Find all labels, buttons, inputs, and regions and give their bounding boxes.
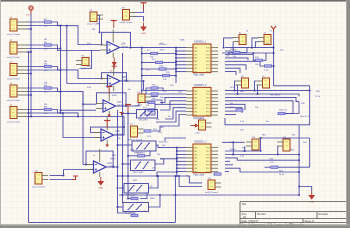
svg-text:ext(+) Tunnel: ext(+) Tunnel bbox=[7, 120, 20, 123]
svg-text:Revision: Revision bbox=[319, 213, 329, 216]
wire row3 pin1 to op-amp B in bbox=[27, 67, 101, 79]
op-amp U1D bbox=[94, 117, 123, 145]
wire row4 pin1 to op-amp C in bbox=[27, 88, 96, 104]
svg-text:ext(+) Tunnel: ext(+) Tunnel bbox=[7, 33, 20, 36]
wire row 1 from connector J1 bbox=[27, 25, 61, 27]
svg-text:NJM2901_1: NJM2901_1 bbox=[194, 42, 207, 44]
wire op-amp B feedback loop bbox=[102, 73, 127, 81]
power mark near P6 circuit bbox=[120, 113, 124, 116]
svg-text:P1O: P1O bbox=[206, 94, 210, 96]
svg-text:P1O: P1O bbox=[206, 51, 210, 53]
svg-text:P0O: P0O bbox=[206, 91, 210, 93]
wire vertical x177.4 to bottom bus bbox=[174, 176, 176, 222]
power VCC opamp C bbox=[106, 87, 112, 95]
wire VCC right stem down bbox=[273, 31, 275, 86]
power VCC opamp D bbox=[104, 121, 110, 129]
svg-text:NJM2901_3: NJM2901_3 bbox=[194, 142, 207, 144]
wire: vertical bus x28.5 upper bbox=[28, 52, 30, 113]
wire op-amp D feedback loop bbox=[114, 134, 125, 136]
wire conn J6 feeds bbox=[224, 38, 234, 48]
wire vertical x141.8 bbox=[141, 48, 143, 94]
resistor R25 bbox=[131, 195, 139, 199]
svg-text:VCC: VCC bbox=[26, 15, 31, 17]
svg-text:R16 Rout: R16 Rout bbox=[159, 141, 168, 144]
switch SW3 bbox=[131, 160, 156, 174]
svg-text:IN5: IN5 bbox=[194, 108, 197, 110]
wire near conn P4 bbox=[81, 50, 92, 69]
svg-text:NJM2901_2: NJM2901_2 bbox=[194, 85, 207, 87]
svg-text:4PDT SW3: 4PDT SW3 bbox=[126, 195, 138, 197]
svg-text:P3O: P3O bbox=[206, 58, 210, 60]
power VCC sw bbox=[125, 105, 131, 113]
wire op-amp A feedback loop bbox=[102, 32, 131, 47]
power VCC top bbox=[141, 3, 147, 11]
connector P7 bbox=[128, 124, 144, 142]
wire to right nest top bbox=[274, 85, 310, 87]
op-amp U1B bbox=[101, 63, 130, 91]
wire P6 pin wires bbox=[151, 96, 158, 98]
svg-text:W32 MELF: W32 MELF bbox=[270, 95, 281, 97]
op-amp U1C bbox=[96, 88, 125, 116]
wire conn J7 feeds bbox=[252, 38, 259, 48]
diode D1 bbox=[110, 58, 117, 73]
ground bbox=[97, 177, 104, 190]
resistor R32 bbox=[264, 65, 272, 72]
connector P4 bbox=[76, 55, 89, 70]
svg-text:IN4: IN4 bbox=[194, 105, 197, 107]
ground bbox=[308, 191, 315, 204]
svg-text:Number: Number bbox=[257, 213, 266, 216]
wire SW1 left feed bbox=[123, 112, 137, 114]
wire row2 pin1 to op-amp A in- bbox=[27, 45, 100, 51]
svg-text:U2A: U2A bbox=[108, 162, 113, 165]
switch SW4 bbox=[124, 184, 149, 197]
no-ERC marker bbox=[191, 125, 196, 127]
svg-text:SW-DIP2: SW-DIP2 bbox=[139, 120, 149, 122]
wire ladder x176 IC1 left bbox=[175, 48, 177, 83]
svg-text:IN0: IN0 bbox=[194, 91, 197, 93]
svg-text:ext(+) Tunnel: ext(+) Tunnel bbox=[32, 185, 45, 188]
connector J11 bbox=[32, 170, 48, 188]
resistor R10 bbox=[159, 68, 166, 70]
svg-text:4PDT SW1: 4PDT SW1 bbox=[134, 153, 146, 155]
power VCC opamp A bbox=[111, 21, 117, 29]
svg-text:U1A: U1A bbox=[121, 43, 126, 46]
wire right vertical to GND bbox=[298, 125, 300, 187]
power mark below op-amp D bbox=[105, 145, 109, 148]
svg-text:LM324: LM324 bbox=[122, 80, 130, 82]
wire ladder x176.8 IC3 left bbox=[176, 148, 178, 176]
switch SW1 bbox=[137, 110, 158, 122]
resistor R9 bbox=[156, 61, 163, 63]
svg-text:ext(+) Tunnel: ext(+) Tunnel bbox=[7, 99, 20, 102]
svg-text:IN6: IN6 bbox=[194, 168, 197, 170]
wire long vertical x122.5 bbox=[122, 53, 124, 203]
svg-text:IN0: IN0 bbox=[194, 147, 197, 149]
svg-text:Rout: Rout bbox=[160, 49, 165, 52]
wire IC2 right nest bbox=[225, 90, 310, 92]
wire: vertical bus x31 from VCC P1 bbox=[30, 10, 32, 116]
wire vertical x128 switch feed bbox=[127, 109, 129, 199]
svg-text:Vcc: Vcc bbox=[266, 43, 269, 45]
wire long horizontal y195 bbox=[119, 194, 299, 196]
wire op-amp E loop bbox=[86, 151, 113, 167]
resistor R31 bbox=[255, 57, 263, 66]
page border bbox=[0, 0, 350, 2]
svg-text:1k: 1k bbox=[93, 155, 95, 157]
connector J13 bbox=[246, 137, 259, 150]
svg-text:LED: LED bbox=[196, 132, 201, 134]
svg-text:Pght_Sddr: Pght_Sddr bbox=[194, 174, 205, 177]
svg-text:P5O: P5O bbox=[206, 165, 210, 167]
wire: vertical bus x83 bbox=[82, 91, 84, 164]
svg-text:P4O: P4O bbox=[206, 61, 210, 63]
resistor R30 bbox=[233, 49, 241, 58]
resistor R4 bbox=[44, 85, 52, 94]
wire conn J11 feeds bbox=[50, 175, 64, 177]
svg-text:P6O: P6O bbox=[206, 168, 210, 170]
wire op-amp B in2 feed bbox=[67, 83, 101, 85]
svg-text:IN1: IN1 bbox=[194, 151, 197, 153]
svg-text:RGb2: RGb2 bbox=[230, 149, 236, 151]
wire op-amp A out to IC1 pin1 bbox=[131, 47, 187, 49]
resistor R7 bbox=[151, 52, 158, 54]
connector P3 bbox=[120, 7, 136, 24]
resistor R28 bbox=[271, 166, 278, 168]
svg-text:IN2: IN2 bbox=[194, 54, 197, 56]
svg-text:Vw: Vw bbox=[168, 116, 171, 118]
svg-text:IN3: IN3 bbox=[194, 158, 197, 160]
wire row 2 from connector J2 bbox=[27, 48, 61, 50]
title block bbox=[240, 202, 347, 226]
wire top conn P2/P3 bbox=[97, 16, 100, 33]
op-amp U2A bbox=[87, 149, 116, 177]
wire long vertical x117.5 bbox=[118, 110, 132, 213]
svg-text:4PDT SW4: 4PDT SW4 bbox=[125, 213, 137, 215]
resistor R19 bbox=[144, 130, 151, 132]
svg-text:U1C: U1C bbox=[117, 102, 122, 104]
wire op-amp E input bbox=[83, 164, 86, 166]
connector J7 bbox=[258, 32, 271, 44]
resistor R18 bbox=[148, 109, 155, 111]
svg-text:IN4: IN4 bbox=[194, 61, 197, 63]
svg-text:IN5: IN5 bbox=[194, 165, 197, 167]
svg-text:4PDT SW2: 4PDT SW2 bbox=[133, 172, 145, 174]
svg-text:Pght_Sddr: Pght_Sddr bbox=[194, 117, 205, 120]
connector J5 bbox=[7, 104, 27, 123]
svg-text:IN7: IN7 bbox=[194, 115, 197, 117]
svg-text:IN4: IN4 bbox=[194, 161, 197, 163]
op-amp U1A bbox=[100, 30, 129, 58]
svg-text:GND: GND bbox=[141, 33, 146, 35]
wire stair IC2 left pins bbox=[158, 93, 186, 95]
svg-text:LM324: LM324 bbox=[117, 105, 125, 107]
wire op-amp D in+ feed bbox=[61, 113, 102, 138]
resistor R2 bbox=[44, 42, 52, 51]
wire conn J12 feeds bbox=[189, 176, 202, 183]
wire op-amp B out to IC2 bbox=[127, 81, 187, 91]
connector J3 bbox=[7, 61, 27, 80]
resistor R24 bbox=[137, 153, 145, 157]
resistor R5 bbox=[44, 106, 52, 115]
resistor R15 bbox=[151, 87, 158, 89]
svg-text:P1O: P1O bbox=[206, 151, 210, 153]
connector J1 bbox=[7, 17, 27, 36]
svg-text:P7O: P7O bbox=[206, 115, 210, 117]
power P1 VCC bbox=[29, 6, 33, 14]
switch SW2 bbox=[132, 141, 156, 155]
wire switch cluster interconnect bbox=[118, 144, 133, 146]
svg-text:U1D: U1D bbox=[115, 131, 120, 133]
wire row5 pin1 bbox=[27, 110, 78, 117]
wire op-amp E out onward bbox=[113, 166, 117, 168]
wire resistor links IC1 bbox=[142, 53, 151, 55]
svg-text:GND: GND bbox=[98, 188, 103, 190]
connector P2 bbox=[87, 10, 103, 26]
wire feeds into IC3 ladder bbox=[158, 147, 177, 148]
connector J6 bbox=[233, 32, 246, 44]
wire long bottom y221 bbox=[29, 221, 176, 223]
wire bus y53 bbox=[222, 52, 274, 54]
svg-text:IN3: IN3 bbox=[194, 101, 197, 103]
svg-text:ext(+) Tunnel: ext(+) Tunnel bbox=[7, 77, 20, 80]
svg-text:P5O: P5O bbox=[206, 65, 210, 67]
svg-text:R33 2.2k: R33 2.2k bbox=[279, 110, 288, 112]
svg-text:ext(+)T: ext(+)T bbox=[135, 104, 143, 107]
wire: vertical bus x66.8 bbox=[66, 26, 68, 84]
svg-text:Pght_Sddr: Pght_Sddr bbox=[194, 74, 205, 77]
svg-text:Rout: Rout bbox=[160, 96, 165, 99]
svg-text:Vo2b: Vo2b bbox=[112, 95, 118, 97]
power mark below op-amp C bbox=[107, 115, 111, 118]
svg-text:P4O: P4O bbox=[206, 161, 210, 163]
wire long feed y116.5 into op-amp D node bbox=[31, 117, 124, 136]
svg-text:NJM: NJM bbox=[180, 40, 185, 42]
IC U5 bbox=[186, 142, 218, 177]
svg-text:P5O: P5O bbox=[206, 108, 210, 110]
svg-text:IN6: IN6 bbox=[194, 68, 197, 70]
svg-text:P2O: P2O bbox=[206, 54, 210, 56]
wire op-amp C in2 feed bbox=[61, 109, 97, 111]
svg-text:P6O: P6O bbox=[206, 111, 210, 113]
svg-text:P4O: P4O bbox=[206, 105, 210, 107]
connector J8 bbox=[236, 76, 249, 88]
svg-text:IN7: IN7 bbox=[194, 71, 197, 73]
resistor R3 bbox=[44, 63, 52, 72]
resistor R17 bbox=[148, 101, 155, 103]
resistor R27 bbox=[236, 109, 243, 111]
svg-text:IN1: IN1 bbox=[194, 51, 197, 53]
IC U3 bbox=[186, 42, 218, 77]
svg-text:Rout: Rout bbox=[240, 90, 245, 93]
wire row1 pin1 to op-amp A in+ bbox=[27, 22, 100, 45]
wire IC3 right nest bbox=[222, 141, 245, 143]
power stub red J11 bbox=[72, 176, 78, 180]
svg-text:ext(+)T: ext(+)T bbox=[79, 67, 87, 70]
svg-text:IN0: IN0 bbox=[194, 47, 197, 49]
connector P8 bbox=[196, 118, 212, 135]
svg-text:IN6: IN6 bbox=[194, 111, 197, 113]
resistor R16 bbox=[151, 93, 158, 95]
wire conn J8a feeds bbox=[235, 81, 236, 91]
svg-text:IN2: IN2 bbox=[194, 98, 197, 100]
wire op-amp C feedback loop bbox=[97, 93, 127, 106]
svg-text:6/3/2017: 6/3/2017 bbox=[249, 220, 259, 223]
wire row 3 from connector J3 bbox=[27, 69, 61, 71]
svg-text:P7O: P7O bbox=[206, 171, 210, 173]
svg-text:Date:: Date: bbox=[242, 220, 248, 223]
connector P6 bbox=[135, 92, 151, 107]
svg-text:ext(+) Tunnel: ext(+) Tunnel bbox=[7, 56, 20, 59]
wire conn J8b feeds bbox=[255, 81, 257, 91]
svg-text:MELF: MELF bbox=[110, 159, 116, 161]
svg-text:ext(2) Tunnel: ext(2) Tunnel bbox=[205, 191, 218, 194]
connector J14 bbox=[277, 137, 290, 151]
svg-text:IN1: IN1 bbox=[194, 94, 197, 96]
wire row 4 from connector J4 bbox=[27, 91, 61, 93]
svg-text:IN5: IN5 bbox=[194, 65, 197, 67]
svg-text:LM324: LM324 bbox=[108, 166, 116, 168]
connector J4 bbox=[7, 83, 27, 102]
switch SW5 bbox=[123, 203, 149, 216]
svg-text:P2O: P2O bbox=[206, 98, 210, 100]
svg-text:LM324: LM324 bbox=[121, 47, 129, 49]
svg-text:P3O: P3O bbox=[206, 158, 210, 160]
resistor R26 bbox=[131, 212, 139, 216]
svg-text:P2O: P2O bbox=[206, 154, 210, 156]
svg-text:Sheet of: Sheet of bbox=[305, 220, 315, 223]
svg-text:IN7: IN7 bbox=[194, 171, 197, 173]
svg-text:IN3: IN3 bbox=[194, 58, 197, 60]
wire IC1 right side bus y47.5 bbox=[225, 47, 274, 49]
svg-text:P0O: P0O bbox=[206, 47, 210, 49]
wire: vertical bus x60.5 bbox=[60, 26, 62, 113]
wire IC1 right rows to resistors bbox=[225, 51, 233, 53]
resistor R33 bbox=[278, 112, 285, 114]
svg-text:P6O: P6O bbox=[206, 68, 210, 70]
svg-text:Pght: Pght bbox=[186, 175, 191, 178]
resistor R1 bbox=[44, 19, 52, 28]
IC U4 bbox=[186, 85, 218, 120]
svg-text:IN2: IN2 bbox=[194, 154, 197, 156]
svg-text:Rw: Rw bbox=[266, 121, 270, 123]
wire row 5 from connector J5 bbox=[27, 112, 61, 114]
svg-text:LM324: LM324 bbox=[115, 134, 123, 136]
svg-text:Title: Title bbox=[242, 203, 247, 206]
connector J2 bbox=[7, 40, 27, 59]
resistor R22 bbox=[214, 173, 221, 175]
connector J12 bbox=[205, 178, 221, 194]
svg-text:P7O: P7O bbox=[206, 71, 210, 73]
resistor R12 bbox=[163, 74, 170, 76]
ground bbox=[140, 23, 147, 32]
svg-text:U1B: U1B bbox=[122, 77, 127, 79]
svg-text:Rout 22.1k: Rout 22.1k bbox=[300, 115, 311, 118]
svg-text:ext(2) Tunnel: ext(2) Tunnel bbox=[120, 21, 133, 24]
power VCC right bbox=[271, 26, 276, 32]
svg-text:P3O: P3O bbox=[206, 101, 210, 103]
connector J9 bbox=[257, 76, 270, 88]
svg-text:P0O: P0O bbox=[206, 147, 210, 149]
svg-text:Rw: Rw bbox=[230, 103, 234, 105]
